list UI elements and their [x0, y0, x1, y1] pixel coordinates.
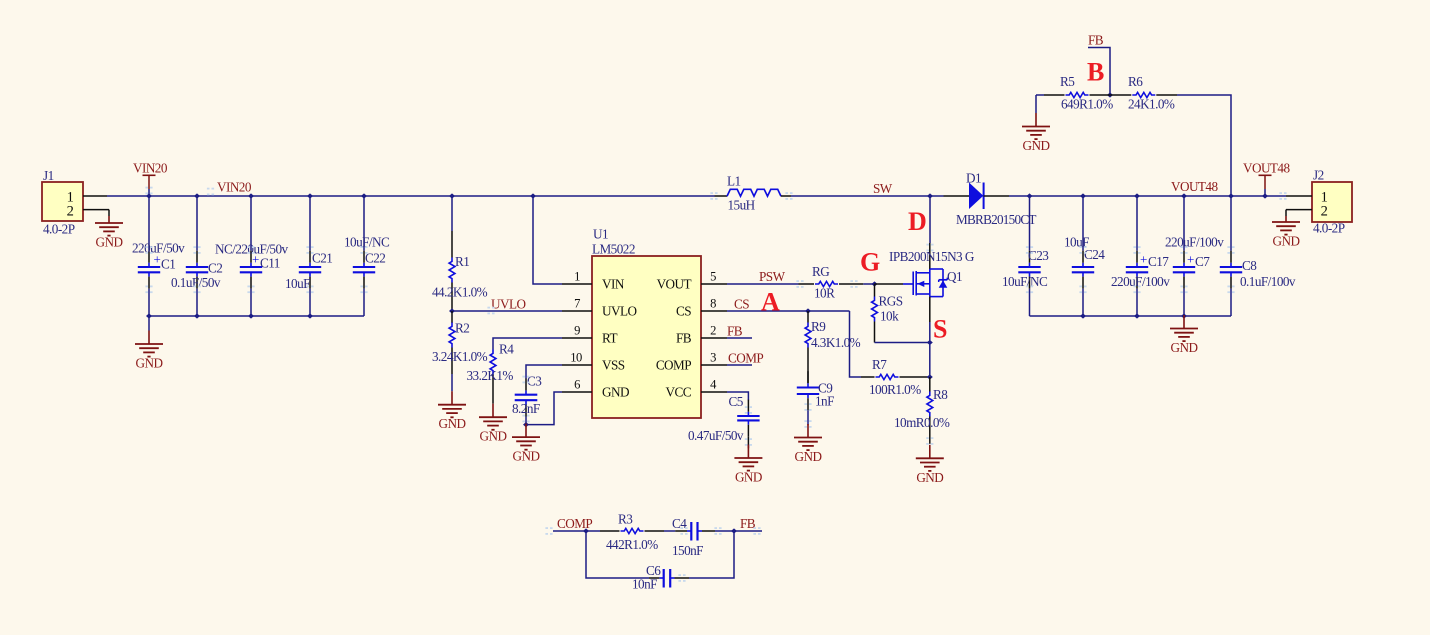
net label COMP at pin 3: [728, 351, 763, 366]
ground at C9: [794, 424, 822, 464]
svg-text:3.24K1.0%: 3.24K1.0%: [432, 349, 488, 364]
svg-text:8: 8: [710, 297, 716, 311]
R6 value label 24K1.0%: [1128, 97, 1175, 112]
junction VIN drop on bus: [530, 193, 536, 198]
svg-text:C1: C1: [161, 257, 175, 272]
capacitor C11: [240, 196, 262, 316]
svg-text:COMP: COMP: [728, 351, 763, 366]
R5 designator label: [1060, 74, 1075, 89]
C1 value label 220uF/50v: [132, 241, 185, 256]
node G red letter: [860, 248, 880, 277]
D1 value label MBRB20150CT: [956, 212, 1036, 227]
C21 designator label: [312, 251, 332, 266]
svg-text:SW: SW: [873, 181, 893, 196]
junction C21 bottom: [307, 313, 313, 318]
svg-text:24K1.0%: 24K1.0%: [1128, 97, 1175, 112]
junction C23 top: [1027, 193, 1033, 198]
junction source node S: [927, 340, 933, 345]
capacitor C17: [1126, 196, 1148, 316]
svg-text:G: G: [860, 248, 880, 277]
svg-text:10R: 10R: [814, 286, 835, 301]
net label FB top: [1088, 33, 1104, 48]
wire VCC pin 4 to C5: [727, 392, 748, 400]
svg-text:C8: C8: [1242, 258, 1257, 273]
svg-text:VOUT: VOUT: [657, 276, 692, 291]
J1 designator label: [43, 168, 54, 183]
svg-text:GND: GND: [916, 470, 943, 485]
svg-text:2: 2: [710, 324, 716, 338]
svg-text:D: D: [908, 207, 927, 236]
net label PSW: [759, 269, 786, 284]
svg-text:10k: 10k: [880, 309, 899, 324]
svg-text:1: 1: [574, 270, 580, 284]
resistor R3: [600, 528, 664, 533]
junction UVLO node: [449, 308, 455, 313]
wire R3 to C4: [664, 530, 675, 532]
capacitor C7: [1173, 196, 1195, 316]
ground at J1 pin 2: [95, 210, 123, 250]
C4 designator label: [672, 516, 687, 531]
svg-text:5: 5: [710, 270, 716, 284]
svg-text:PSW: PSW: [759, 269, 786, 284]
J1 value label 4.0-2P: [43, 222, 75, 237]
capacitor C24: [1072, 196, 1094, 316]
wire D1 cathode to J2: [1009, 195, 1286, 197]
R2 value label 3.24K1.0%: [432, 349, 488, 364]
RGS value label 10k: [880, 309, 899, 324]
wire RT pin 9 to R4: [493, 338, 562, 350]
svg-text:R8: R8: [933, 387, 948, 402]
svg-text:GND: GND: [1171, 340, 1198, 355]
svg-text:D1: D1: [966, 171, 981, 186]
wire Q1 source to node S: [929, 322, 931, 343]
wire gate node to Q1 gate: [875, 283, 904, 285]
R1 designator label: [455, 254, 469, 269]
RG designator label: [812, 264, 830, 279]
wire UVLO node to U1 pin 7: [452, 310, 562, 312]
svg-text:C5: C5: [729, 394, 744, 409]
U1 pin 4 (VCC): [666, 378, 727, 400]
svg-text:220uF/100v: 220uF/100v: [1165, 235, 1224, 250]
wire COMP node down to C6: [586, 531, 649, 578]
svg-text:CS: CS: [734, 297, 749, 312]
U1 pin 2 (FB): [676, 324, 727, 346]
Q1 value label IPB200N15N3 G: [889, 249, 975, 264]
C24 designator label: [1084, 247, 1105, 262]
svg-text:MBRB20150CT: MBRB20150CT: [956, 212, 1036, 227]
power port VOUT48: [1243, 161, 1290, 197]
svg-text:R5: R5: [1060, 74, 1075, 89]
ground at J2 pin 2: [1272, 210, 1300, 249]
svg-text:NC/220uF/50v: NC/220uF/50v: [215, 242, 288, 257]
wire CS corner down to R7: [850, 311, 862, 377]
svg-text:100R1.0%: 100R1.0%: [869, 382, 921, 397]
svg-text:CS: CS: [676, 303, 691, 318]
wire node D to Q1 drain: [929, 196, 931, 243]
U1 pin 6 (GND): [562, 378, 629, 400]
L1 value label 15uH: [728, 198, 756, 213]
svg-text:4.3K1.0%: 4.3K1.0%: [811, 335, 861, 350]
C7 value label 220uF/100v: [1165, 235, 1224, 250]
junction C1 bottom: [146, 313, 152, 318]
junction C7 top: [1181, 193, 1187, 198]
ground at input cap rail: [135, 316, 163, 371]
C6 designator label: [646, 563, 661, 578]
resistor R1: [449, 196, 455, 311]
junction C8 top: [1228, 193, 1234, 198]
svg-text:R4: R4: [499, 342, 514, 357]
C9 designator label: [818, 381, 833, 396]
R1 value label 44.2K1.0%: [432, 285, 488, 300]
R6 designator label: [1128, 74, 1143, 89]
svg-text:R3: R3: [618, 512, 633, 527]
R2 designator label: [455, 321, 469, 336]
svg-text:RGS: RGS: [879, 294, 903, 309]
svg-text:2: 2: [67, 204, 74, 220]
net label VOUT48 on bus: [1171, 179, 1218, 194]
ground at C3: [512, 424, 540, 464]
svg-text:C23: C23: [1028, 248, 1049, 263]
svg-text:GND: GND: [735, 470, 762, 485]
svg-text:GND: GND: [513, 449, 540, 464]
D1 designator label: [966, 171, 981, 186]
C24 value label 10uF: [1064, 235, 1089, 250]
svg-text:FB: FB: [676, 330, 692, 345]
node D red letter: [908, 207, 927, 236]
wire RG to gate node: [863, 283, 874, 285]
svg-text:GND: GND: [795, 449, 822, 464]
resistor R5: [1044, 92, 1110, 97]
C5 value label 0.47uF/50v: [688, 428, 744, 443]
capacitor C23: [1018, 196, 1040, 316]
C23 value label 10uF/NC: [1002, 274, 1048, 289]
C2 designator label: [208, 261, 222, 276]
resistor R8: [927, 377, 933, 444]
wire node S down to R7 node: [929, 343, 931, 378]
wire L1 to node D: [791, 195, 944, 197]
C3 designator label: [527, 374, 542, 389]
wire R6 down to VOUT48 bus: [1177, 95, 1231, 196]
svg-text:15uH: 15uH: [728, 198, 756, 213]
svg-text:VIN20: VIN20: [133, 161, 168, 176]
C4 value label 150nF: [672, 543, 703, 558]
R7 designator label: [872, 357, 887, 372]
wire C4 to FB node: [715, 530, 734, 532]
R7 value label 100R1.0%: [869, 382, 921, 397]
C22 value label 10uF/NC: [344, 235, 390, 250]
wire CS pin 8 net: [727, 310, 850, 312]
ground at R5: [1022, 95, 1050, 153]
resistor RG: [799, 281, 864, 286]
power port VIN20: [133, 161, 168, 197]
svg-text:GND: GND: [136, 356, 163, 371]
junction C17 top: [1134, 193, 1140, 198]
C5 designator label: [729, 394, 744, 409]
junction R7/R8 node: [927, 374, 933, 379]
R3 designator label: [618, 512, 633, 527]
C23 designator label: [1028, 248, 1049, 263]
U1 value label LM5022: [592, 242, 635, 257]
svg-text:RG: RG: [812, 264, 830, 279]
svg-text:VOUT48: VOUT48: [1171, 179, 1218, 194]
R4 value label 33.2K1%: [467, 368, 514, 383]
junction C2 bottom: [194, 313, 200, 318]
net label SW: [873, 181, 893, 196]
wire RGS bottom to source node: [875, 342, 930, 344]
wire COMP net stub: [553, 530, 586, 532]
wire COMP node to R3: [586, 530, 600, 532]
node S red letter: [933, 315, 947, 344]
capacitor C21: [299, 196, 321, 316]
U1 pin 7 (UVLO): [562, 297, 636, 319]
svg-text:R6: R6: [1128, 74, 1143, 89]
svg-text:FB: FB: [727, 324, 743, 339]
svg-text:U1: U1: [593, 227, 608, 242]
svg-text:1nF: 1nF: [815, 394, 834, 409]
R9 value label 4.3K1.0%: [811, 335, 861, 350]
capacitor C3: [515, 378, 538, 424]
svg-text:C4: C4: [672, 516, 687, 531]
svg-text:33.2K1%: 33.2K1%: [467, 368, 514, 383]
wire GND pin 6 to C3 bottom: [526, 392, 562, 425]
resistor R9: [805, 311, 811, 383]
wire FB stub bottom: [734, 530, 762, 532]
C21 value label 10uF: [285, 276, 310, 291]
capacitor C9: [797, 371, 819, 425]
connector J2: [1286, 182, 1352, 222]
svg-text:VOUT48: VOUT48: [1243, 161, 1290, 176]
svg-text:10: 10: [570, 351, 582, 365]
junction C11 top: [248, 193, 254, 198]
svg-text:2: 2: [1321, 204, 1328, 220]
junction node B: [1107, 92, 1113, 97]
junction COMP node bottom: [583, 528, 589, 533]
ground at C5: [734, 445, 762, 485]
svg-text:442R1.0%: 442R1.0%: [606, 537, 658, 552]
R3 value label 442R1.0%: [606, 537, 658, 552]
J2 value label 4.0-2P: [1313, 221, 1345, 236]
svg-text:VCC: VCC: [666, 384, 692, 399]
diode D1: [944, 183, 1010, 210]
svg-text:C21: C21: [312, 251, 332, 266]
resistor R7: [861, 374, 930, 379]
junction C21 top: [307, 193, 313, 198]
C9 value label 1nF: [815, 394, 834, 409]
junction C2 top: [194, 193, 200, 198]
svg-text:9: 9: [574, 324, 580, 338]
junction C24 bottom: [1080, 313, 1086, 318]
svg-text:GND: GND: [1023, 138, 1050, 153]
net label CS: [734, 297, 749, 312]
svg-text:GND: GND: [1273, 234, 1300, 249]
svg-text:J1: J1: [43, 168, 54, 183]
ground at R8: [916, 445, 944, 485]
svg-text:C2: C2: [208, 261, 222, 276]
RGS designator label: [879, 294, 903, 309]
wire main VIN20 bus: [107, 195, 715, 197]
svg-text:RT: RT: [602, 330, 617, 345]
C11 value label NC/220uF/50v: [215, 242, 288, 257]
junction R1 top on bus: [449, 193, 455, 198]
L1 designator label: [727, 174, 741, 189]
U1 pin 3 (COMP): [656, 351, 727, 373]
connector J1: [42, 182, 109, 221]
junction C22 top: [361, 193, 367, 198]
svg-text:C22: C22: [365, 251, 385, 266]
wire output cap bottom rail: [1030, 315, 1232, 317]
svg-text:220uF/100v: 220uF/100v: [1111, 274, 1170, 289]
svg-text:Q1: Q1: [947, 269, 962, 284]
net label FB bottom: [740, 516, 756, 531]
svg-text:B: B: [1087, 58, 1104, 87]
C11 designator label: [260, 256, 280, 271]
ground at R4: [479, 404, 507, 444]
svg-text:7: 7: [574, 297, 580, 311]
resistor R2: [449, 311, 455, 391]
off-grid endpoint markers: [145, 187, 1286, 582]
capacitor C1: [138, 196, 161, 316]
svg-text:GND: GND: [439, 416, 466, 431]
R9 designator label: [811, 319, 826, 334]
svg-text:44.2K1.0%: 44.2K1.0%: [432, 285, 488, 300]
junction CS/R9 node: [805, 308, 811, 313]
svg-text:C11: C11: [260, 256, 280, 271]
svg-text:+: +: [1187, 252, 1194, 267]
junction C11 bottom: [248, 313, 254, 318]
Q1 designator label: [947, 269, 962, 284]
svg-text:J2: J2: [1313, 168, 1324, 183]
U1 pin 9 (RT): [562, 324, 617, 346]
junction gate node G: [872, 281, 878, 286]
svg-text:S: S: [933, 315, 947, 344]
wire R5 to ground corner: [1036, 94, 1044, 96]
C2 value label 0.1uF/50v: [171, 275, 221, 290]
svg-text:COMP: COMP: [557, 516, 592, 531]
capacitor C22: [353, 196, 375, 316]
C3 value label 8.2nF: [512, 401, 540, 416]
resistor R4: [490, 350, 496, 404]
junction VIN20 port / C1: [146, 193, 152, 198]
transistor Q1: [903, 243, 947, 322]
svg-text:3: 3: [710, 351, 716, 365]
IC U1 LM5022 body: [592, 256, 701, 418]
svg-text:A: A: [761, 288, 780, 317]
wire VOUT pin 5 PSW net: [727, 283, 799, 285]
svg-text:VIN: VIN: [602, 276, 625, 291]
node A red letter: [761, 288, 780, 317]
svg-text:GND: GND: [480, 429, 507, 444]
wire COMP pin 3 stub: [727, 364, 752, 366]
U1 pin 8 (CS): [676, 297, 727, 319]
svg-text:10uF/NC: 10uF/NC: [1002, 274, 1048, 289]
svg-text:VIN20: VIN20: [217, 180, 252, 195]
svg-text:R9: R9: [811, 319, 826, 334]
svg-text:220uF/50v: 220uF/50v: [132, 241, 185, 256]
C8 designator label: [1242, 258, 1257, 273]
U1 pin 1 (VIN): [562, 270, 625, 292]
net label VIN20: [217, 180, 252, 195]
resistor R6: [1110, 92, 1177, 97]
junction C24 top: [1080, 193, 1086, 198]
svg-text:4.0-2P: 4.0-2P: [1313, 221, 1345, 236]
C6 value label 10nF: [632, 577, 657, 592]
svg-text:R2: R2: [455, 321, 469, 336]
wire FB pin 2 stub: [727, 337, 752, 339]
net label COMP bottom: [557, 516, 592, 531]
svg-text:649R1.0%: 649R1.0%: [1061, 97, 1113, 112]
svg-text:6: 6: [574, 378, 580, 392]
capacitor C2: [186, 196, 208, 316]
inductor L1: [715, 189, 792, 196]
svg-text:LM5022: LM5022: [592, 242, 635, 257]
svg-text:GND: GND: [96, 235, 123, 250]
svg-text:10mR0.0%: 10mR0.0%: [894, 415, 950, 430]
junction VOUT48 port on bus: [1262, 193, 1268, 198]
C8 value label 0.1uF/100v: [1240, 274, 1296, 289]
capacitor C6: [649, 569, 689, 588]
svg-text:UVLO: UVLO: [602, 303, 636, 318]
svg-text:0.1uF/50v: 0.1uF/50v: [171, 275, 221, 290]
svg-text:R7: R7: [872, 357, 887, 372]
svg-text:L1: L1: [727, 174, 741, 189]
svg-text:10nF: 10nF: [632, 577, 657, 592]
svg-text:COMP: COMP: [656, 357, 691, 372]
net label UVLO: [491, 297, 525, 312]
capacitor C5: [737, 400, 759, 449]
C7 designator label: [1195, 254, 1210, 269]
svg-text:GND: GND: [602, 384, 629, 399]
svg-text:C7: C7: [1195, 254, 1210, 269]
wire VSS pin 10 to C3: [526, 365, 562, 379]
junction node D on bus: [927, 193, 933, 198]
C17 value label 220uF/100v: [1111, 274, 1170, 289]
U1 pin 5 (VOUT): [657, 270, 727, 292]
J2 designator label: [1313, 168, 1324, 183]
C22 designator label: [365, 251, 385, 266]
node B red letter: [1087, 58, 1104, 87]
resistor RGS: [872, 284, 878, 343]
wire input cap bottom rail: [149, 315, 364, 317]
svg-text:150nF: 150nF: [672, 543, 703, 558]
svg-text:0.47uF/50v: 0.47uF/50v: [688, 428, 744, 443]
RG value label 10R: [814, 286, 835, 301]
wire FB net stub to node B: [1088, 48, 1110, 96]
wire VIN pin 1 to bus: [533, 196, 562, 284]
junction C3 bottom node: [523, 422, 529, 427]
svg-text:8.2nF: 8.2nF: [512, 401, 540, 416]
svg-text:4.0-2P: 4.0-2P: [43, 222, 75, 237]
ground at output cap rail: [1170, 315, 1198, 355]
capacitor C8: [1220, 196, 1242, 316]
svg-text:0.1uF/100v: 0.1uF/100v: [1240, 274, 1296, 289]
U1 designator label: [593, 227, 608, 242]
C1 designator label: [161, 257, 175, 272]
svg-text:+: +: [1140, 252, 1147, 267]
svg-text:VSS: VSS: [602, 357, 625, 372]
junction C7 bottom: [1181, 313, 1187, 318]
R8 value label 10mR0.0%: [894, 415, 950, 430]
svg-text:10uF: 10uF: [285, 276, 310, 291]
C17 designator label: [1148, 254, 1169, 269]
svg-text:FB: FB: [1088, 33, 1104, 48]
R4 designator label: [499, 342, 514, 357]
junction C17 bottom: [1134, 313, 1140, 318]
ground at R2: [438, 391, 466, 431]
svg-text:C17: C17: [1148, 254, 1169, 269]
R5 value label 649R1.0%: [1061, 97, 1113, 112]
svg-text:R1: R1: [455, 254, 469, 269]
U1 pin 10 (VSS): [562, 351, 625, 373]
